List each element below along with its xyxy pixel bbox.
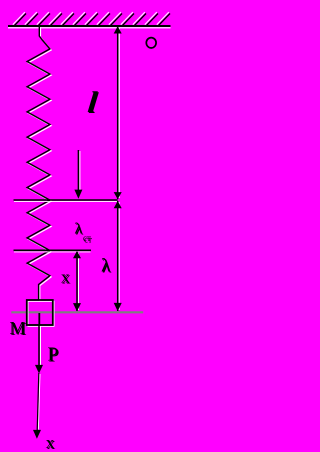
svg-text:P: P	[48, 344, 59, 365]
svg-text:ст: ст	[83, 233, 91, 243]
label l	[86, 85, 100, 120]
line2 static equilibrium level	[14, 251, 91, 253]
ceiling white fringe	[8, 27, 171, 29]
svg-text:λ: λ	[75, 221, 83, 238]
x axis arrowhead	[33, 430, 41, 439]
svg-text:M: M	[10, 318, 26, 338]
natural length arrow	[79, 151, 81, 191]
arrowhead down at gray line	[73, 303, 81, 311]
mass M block	[28, 301, 54, 326]
arrowhead down at gray line	[114, 303, 122, 311]
arrowhead up below line1	[114, 201, 122, 208]
inner rod	[38, 313, 40, 326]
force P arrow	[40, 326, 42, 365]
dimension line l (shaft)	[118, 28, 120, 198]
arrowhead down at line1	[114, 192, 122, 199]
ceiling hatching	[14, 14, 170, 27]
spring	[27, 26, 50, 300]
node o	[146, 38, 156, 48]
arrowhead up at line2	[73, 251, 81, 258]
svg-text:x: x	[46, 433, 55, 452]
svg-text:λ: λ	[101, 256, 111, 277]
arrowhead up at ceiling	[114, 26, 122, 33]
svg-text:x: x	[61, 267, 70, 286]
dimension line lambda (shaft)	[118, 202, 120, 310]
dimension line x (shaft)	[78, 253, 80, 310]
hatch white fringe	[13, 12, 169, 25]
gray equilibrium line	[11, 311, 143, 313]
spring white fringe	[28, 27, 51, 301]
x axis line	[38, 374, 40, 430]
line1 natural length level	[14, 201, 117, 203]
ceiling line	[8, 25, 171, 27]
